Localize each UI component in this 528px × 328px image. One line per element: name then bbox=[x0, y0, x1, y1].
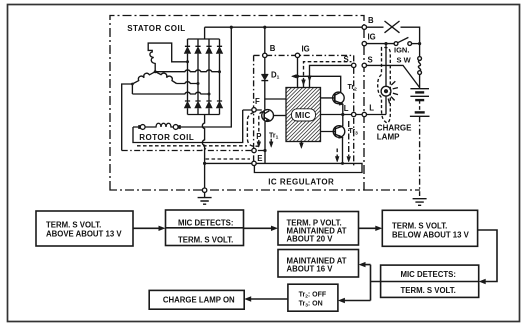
wire: B tap down to regulator bbox=[264, 27, 266, 74]
svg-text:ROTOR COIL: ROTOR COIL bbox=[139, 133, 194, 142]
dashed IG signal into MIC with arrow bbox=[302, 62, 352, 88]
stator phase wire to column 3 (with hops) bbox=[132, 92, 209, 94]
S sense wire to battery bbox=[366, 65, 419, 87]
svg-text:IG: IG bbox=[368, 32, 376, 41]
transistor Tr3 bbox=[321, 126, 345, 139]
svg-text:CHARGE LAMP ON: CHARGE LAMP ON bbox=[163, 296, 235, 305]
svg-text:BELOW ABOUT 13 V: BELOW ABOUT 13 V bbox=[392, 231, 470, 240]
fuse below ignition junction bbox=[418, 44, 422, 89]
L output line bbox=[321, 114, 387, 116]
node IG (alternator) bbox=[362, 41, 366, 45]
ground symbol (alternator) bbox=[198, 192, 212, 204]
wire: Tr1 emitter to E bus bbox=[264, 121, 266, 163]
node S (alternator) bbox=[362, 63, 366, 67]
wire: B bus corner to ignition junction bbox=[401, 27, 420, 43]
transistor Tr1 bbox=[262, 110, 274, 122]
junction dot E bus / ground riser bbox=[203, 162, 206, 165]
ground symbol (battery) bbox=[413, 199, 427, 206]
dashed E sense line bbox=[206, 158, 251, 160]
E bus and regulator bottom loop bbox=[205, 163, 362, 172]
stator phase wire to column 2 (with hop) bbox=[177, 82, 199, 84]
svg-text:D1: D1 bbox=[271, 70, 280, 80]
svg-text:P: P bbox=[256, 132, 261, 141]
svg-text:MIC DETECTS:: MIC DETECTS: bbox=[178, 218, 233, 227]
node B (regulator) bbox=[263, 53, 267, 57]
wire: B bus from rectifier to terminal B bbox=[205, 26, 384, 28]
dashed P signal line with arrow bbox=[257, 112, 263, 148]
wire: Tr3 collector to L line bbox=[342, 115, 344, 127]
MIC hybrid IC (hatched) bbox=[286, 88, 321, 142]
svg-text:Tr3: ON: Tr3: ON bbox=[299, 300, 323, 308]
svg-text:S: S bbox=[368, 55, 373, 64]
svg-text:TERM. S VOLT.: TERM. S VOLT. bbox=[46, 220, 101, 229]
charge lamp wire from IG bbox=[385, 44, 387, 115]
wire: Tr2 emitter to L line bbox=[342, 104, 344, 115]
svg-text:L: L bbox=[344, 104, 349, 113]
diode rectifier column 1 bbox=[184, 39, 190, 115]
junction dots on B bus bbox=[230, 26, 233, 29]
flow box: TERM. S VOLT. ABOVE ABOUT 13 V bbox=[36, 211, 133, 246]
transistor Tr2 bbox=[321, 92, 345, 105]
rotor coil wire with brushes bbox=[133, 27, 231, 129]
schematic text labels bbox=[127, 24, 412, 186]
node F bbox=[252, 108, 256, 112]
charge lamp bulb bbox=[381, 81, 398, 103]
wire: Tr2 collector to IG line bbox=[298, 76, 341, 92]
svg-text:TERM. S VOLT.: TERM. S VOLT. bbox=[392, 221, 447, 230]
svg-text:IC REGULATOR: IC REGULATOR bbox=[268, 178, 334, 187]
flow arrow 1 bbox=[133, 227, 163, 229]
svg-text:IGN.: IGN. bbox=[394, 45, 409, 54]
alternator case boundary (dash-dot box) bbox=[110, 16, 420, 191]
rectifier: negative bus bbox=[188, 114, 220, 116]
svg-text:F: F bbox=[255, 97, 260, 106]
diode rectifier column 3 bbox=[206, 39, 212, 115]
stator coil winding (Y) bbox=[122, 43, 188, 150]
svg-text:ABOUT 16 V: ABOUT 16 V bbox=[287, 264, 334, 273]
dashed rotor sense line bbox=[137, 145, 247, 147]
P sense line from stator (dash-dot, hop at ground riser) bbox=[122, 149, 265, 151]
svg-text:LAMP: LAMP bbox=[377, 132, 400, 141]
dashed Tr1 signal line with arrow bbox=[269, 139, 273, 148]
svg-text:Tr2: OFF: Tr2: OFF bbox=[299, 291, 327, 299]
flow arrow to CHARGE LAMP ON bbox=[247, 298, 288, 300]
svg-text:CHARGE: CHARGE bbox=[377, 123, 412, 132]
svg-text:E: E bbox=[257, 154, 262, 163]
node L (regulator) bbox=[352, 112, 356, 116]
svg-text:B: B bbox=[368, 16, 374, 25]
diode rectifier column 2 bbox=[195, 39, 201, 115]
node L (alternator) bbox=[362, 112, 366, 116]
fusible link bbox=[385, 21, 400, 33]
battery negative return (dash-dot) bbox=[419, 116, 421, 196]
node ground bbox=[202, 188, 206, 192]
wire: regulator B feed to MIC bbox=[265, 98, 286, 100]
svg-text:B: B bbox=[270, 44, 276, 53]
node IG (regulator) bbox=[295, 53, 299, 57]
svg-text:MIC: MIC bbox=[295, 111, 311, 120]
stator neutral wire to column 4 (with hops) bbox=[155, 70, 219, 72]
wire: F terminal to Tr1 bbox=[243, 109, 262, 111]
svg-text:S: S bbox=[344, 55, 349, 64]
svg-text:IG: IG bbox=[302, 45, 310, 54]
flow box: MIC DETECTS / TERM. S VOLT. bbox=[166, 210, 244, 246]
flow box: MAINTAINED AT ABOUT 16 V bbox=[278, 250, 359, 278]
feedback wire from box to MIC DETECTS bbox=[478, 230, 497, 282]
flow box: Tr2 OFF / Tr3 ON bbox=[288, 284, 338, 311]
svg-text:MIC DETECTS:: MIC DETECTS: bbox=[401, 270, 456, 279]
node E bbox=[252, 161, 256, 165]
svg-text:TERM. S VOLT.: TERM. S VOLT. bbox=[178, 235, 233, 244]
field return wire F to rotor bbox=[133, 110, 243, 143]
flow box: TERM. P VOLT. MAINTAINED AT ABOUT 20 V bbox=[278, 212, 359, 246]
flow arrow 3 bbox=[359, 227, 380, 229]
svg-text:ABOVE ABOUT 13 V: ABOVE ABOUT 13 V bbox=[46, 230, 122, 239]
flow box: TERM. S VOLT. BELOW ABOUT 13 V bbox=[382, 210, 477, 246]
dash-dot line from L with arrow to E bus bbox=[347, 121, 351, 162]
svg-text:TERM. S VOLT.: TERM. S VOLT. bbox=[401, 286, 456, 295]
dashed F feedback loop bbox=[247, 112, 258, 146]
node P bbox=[252, 148, 256, 152]
flow arrow 2 bbox=[244, 227, 276, 229]
ignition switch IGN SW bbox=[366, 37, 419, 45]
IC regulator boundary (dash-dot box) bbox=[254, 55, 354, 166]
branch wire to 16V box and Tr box bbox=[341, 265, 381, 301]
svg-text:ABOUT 20 V: ABOUT 20 V bbox=[287, 235, 334, 244]
dashed meter enclosure around charge lamp bbox=[378, 48, 391, 124]
wire: Tr3 emitter to E bus bbox=[342, 137, 344, 163]
dashed MIC output arrow below MIC bbox=[300, 142, 304, 149]
svg-text:L: L bbox=[369, 104, 374, 113]
diode D1 bbox=[261, 75, 268, 110]
wire: Tr1 base to MIC bbox=[274, 115, 287, 117]
svg-text:S W: S W bbox=[397, 56, 412, 65]
svg-text:STATOR COIL: STATOR COIL bbox=[127, 24, 185, 33]
node S (regulator) bbox=[352, 63, 356, 67]
wire: S sense into MIC with arrow bbox=[308, 65, 352, 87]
flowchart bbox=[36, 210, 497, 311]
diode rectifier column 4 bbox=[216, 39, 222, 115]
battery bbox=[410, 89, 430, 117]
rectifier: ground riser with hops bbox=[202, 115, 204, 189]
dashed bias line with arrow to E bus bbox=[335, 149, 339, 163]
flow box: CHARGE LAMP ON bbox=[149, 290, 244, 309]
wire: IG feed into MIC bbox=[297, 57, 299, 87]
node B (alternator) bbox=[362, 25, 366, 29]
rectifier: positive bus bbox=[188, 27, 220, 39]
flow box: MIC DETECTS / TERM. S VOLT. (second) bbox=[381, 265, 479, 297]
flowchart text bbox=[46, 218, 470, 308]
junction dots on rectifier inputs bbox=[186, 60, 189, 63]
svg-text:Tr2: Tr2 bbox=[348, 84, 358, 92]
